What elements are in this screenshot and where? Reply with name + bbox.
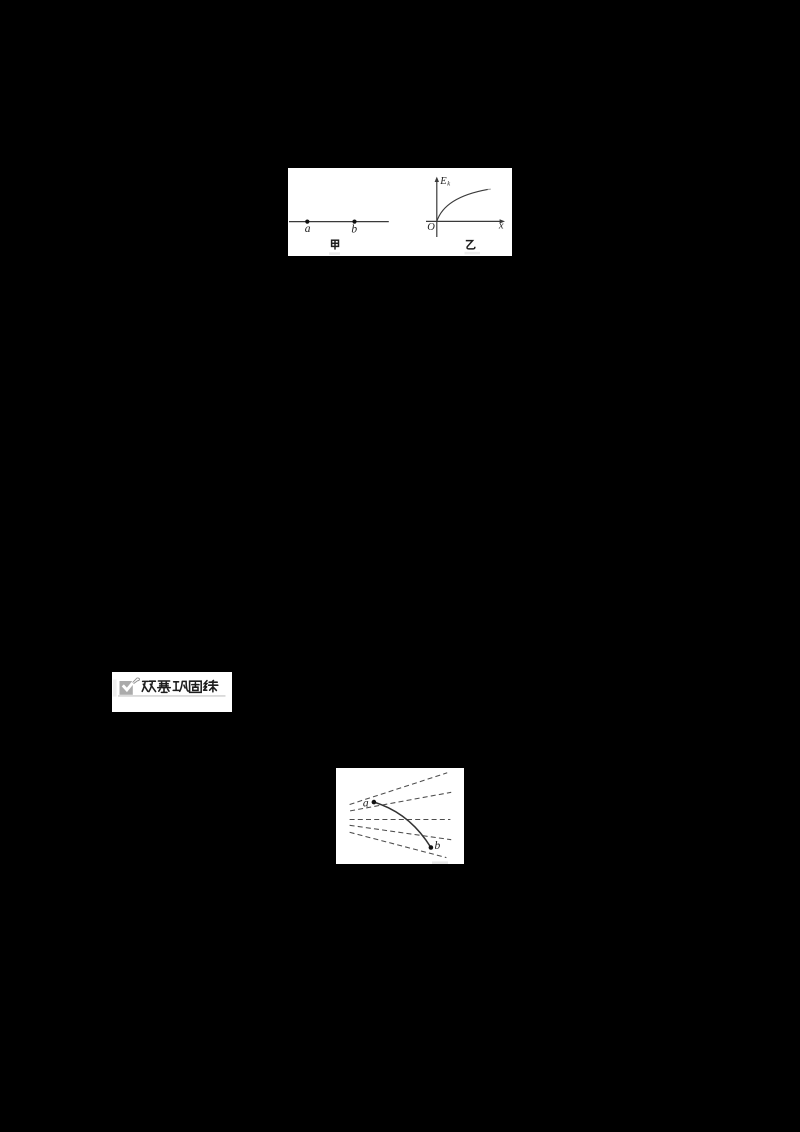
- node a (dot): [372, 800, 377, 805]
- figure box: charged particle in diverging field lines: [336, 768, 464, 864]
- svg-text:b: b: [351, 223, 357, 235]
- checkbox gray square: [120, 681, 133, 695]
- field line 2 (dashed): [350, 792, 451, 811]
- field line 3 (dashed): [350, 819, 451, 821]
- svg-text:x: x: [498, 221, 504, 232]
- gray smudge under 乙: [465, 252, 481, 255]
- field line 5 (dashed): [350, 832, 447, 857]
- svg-text:E: E: [439, 176, 447, 187]
- gray smudge under 甲: [329, 252, 340, 255]
- wire: horizontal field line of fig 甲: [289, 221, 389, 223]
- 巩: [173, 682, 179, 691]
- checkmark white stroke: [123, 681, 135, 690]
- field line 4 (dashed): [350, 825, 452, 839]
- node a (dot): [305, 220, 309, 224]
- svg-text:O: O: [427, 222, 435, 233]
- 双: [142, 681, 148, 691]
- checkmark gray curl outside square: [133, 678, 140, 684]
- node b (dot): [352, 220, 356, 224]
- svg-text:k: k: [447, 181, 450, 188]
- 练: [204, 681, 207, 691]
- svg-text:a: a: [363, 798, 369, 810]
- field line 1 (dashed): [350, 773, 448, 805]
- banner 双基巩固练 with checkbox icon: [112, 672, 232, 712]
- label 甲 (vector strokes): [332, 240, 339, 249]
- curve Ek(x): [437, 189, 488, 221]
- svg-text:b: b: [435, 840, 441, 852]
- title 双基巩固练 (vector strokes): [142, 680, 218, 692]
- 基: [158, 681, 171, 692]
- label 乙 (vector strokes): [466, 241, 475, 249]
- svg-text:a: a: [305, 223, 311, 235]
- faint band left of checkbox: [113, 680, 117, 697]
- 固: [190, 681, 202, 692]
- axis x (horizontal) with arrow: [426, 220, 503, 222]
- underline: [118, 695, 226, 696]
- axis Ek (vertical) with arrow: [436, 179, 438, 237]
- node b (dot): [429, 845, 434, 850]
- gray smudge bottom right: [432, 861, 448, 864]
- figure box 甲/乙 (two sub-figures): [288, 168, 512, 256]
- trajectory a to b: [374, 802, 431, 847]
